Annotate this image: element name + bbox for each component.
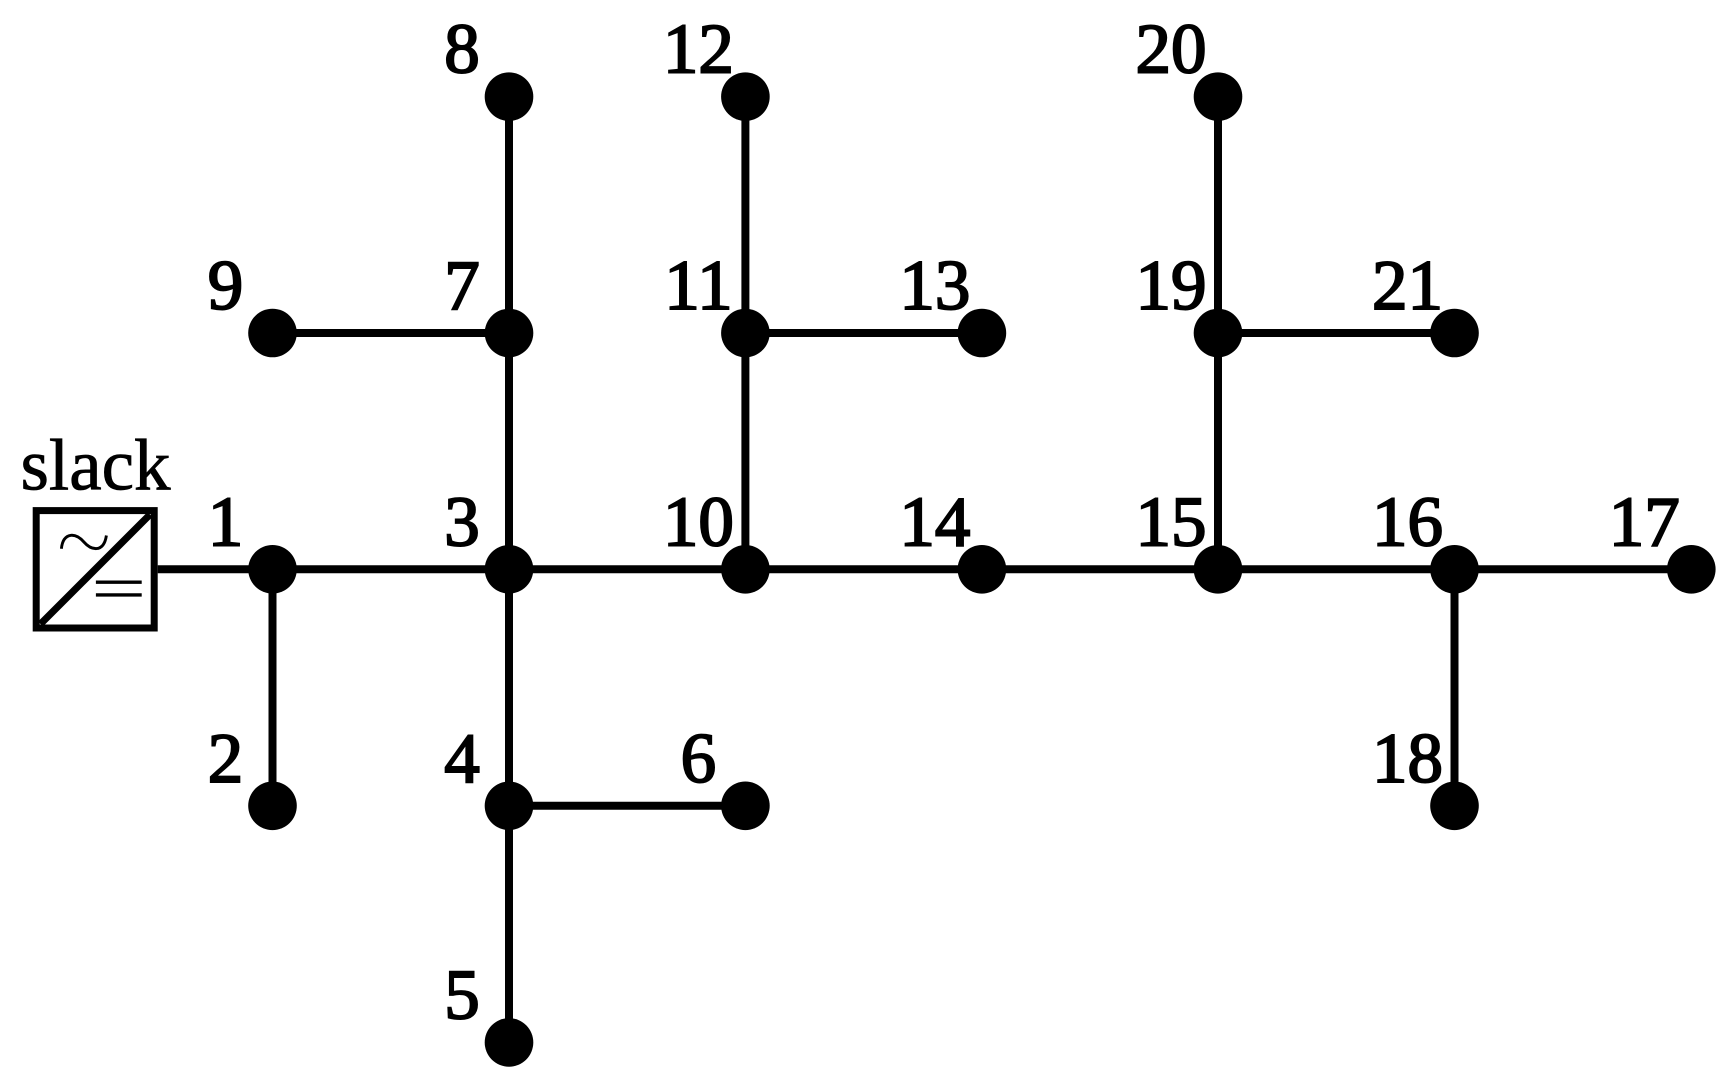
svg-text:5: 5 [444,956,480,1034]
wire 1-2 [269,569,277,806]
node 11 [721,309,770,358]
svg-text:14: 14 [899,483,970,561]
wire 19-20 [1214,97,1222,333]
svg-text:20: 20 [1136,11,1207,89]
wire 16-17 [1455,565,1692,573]
node 5 [485,1018,534,1067]
node 17 [1667,545,1716,594]
wire 14-15 [982,565,1218,573]
svg-text:18: 18 [1372,720,1443,798]
wire 15-16 [1218,565,1455,573]
node 7 [485,309,534,358]
wire 19-21 [1218,329,1455,337]
node 15 [1194,545,1243,594]
wire 3-4 [505,569,513,806]
node 9 [248,309,297,358]
node 2 [248,782,297,831]
svg-text:19: 19 [1136,247,1207,325]
wire 4-6 [509,802,745,810]
node 1 [248,545,297,594]
wire 10-14 [745,565,982,573]
node 16 [1430,545,1479,594]
wire slack-1 [158,565,273,573]
wire 7-8 [505,97,513,333]
wire 7-9 [273,329,510,337]
wire 3-10 [509,565,745,573]
svg-text:15: 15 [1136,483,1207,561]
svg-text:1: 1 [208,483,244,561]
node 14 [958,545,1007,594]
svg-text:6: 6 [681,720,717,798]
svg-text:16: 16 [1372,483,1443,561]
node 21 [1430,309,1479,358]
wire 16-18 [1451,569,1459,806]
svg-text:2: 2 [208,720,244,798]
svg-text:17: 17 [1609,483,1680,561]
svg-text:3: 3 [444,483,480,561]
node 8 [485,72,534,121]
node 10 [721,545,770,594]
slack source converter U1 [36,511,154,628]
node 3 [485,545,534,594]
svg-text:11: 11 [664,247,732,325]
node 20 [1194,72,1243,121]
svg-text:9: 9 [208,247,244,325]
wire 11-13 [745,329,982,337]
node 12 [721,72,770,121]
wire 1-3 [273,565,510,573]
svg-text:10: 10 [663,483,734,561]
node 19 [1194,309,1243,358]
svg-text:13: 13 [899,247,970,325]
wire 10-11 [741,333,749,569]
svg-text:8: 8 [444,11,480,89]
node 6 [721,782,770,831]
wire 11-12 [741,97,749,333]
svg-text:21: 21 [1372,247,1443,325]
wire 15-19 [1214,333,1222,569]
svg-text:7: 7 [444,247,480,325]
wire 4-5 [505,806,513,1043]
node 4 [485,782,534,831]
svg-text:12: 12 [663,11,734,89]
node 18 [1430,782,1479,831]
wire 3-7 [505,333,513,569]
svg-text:4: 4 [444,720,480,798]
svg-text:slack: slack [21,424,171,505]
node 13 [958,309,1007,358]
